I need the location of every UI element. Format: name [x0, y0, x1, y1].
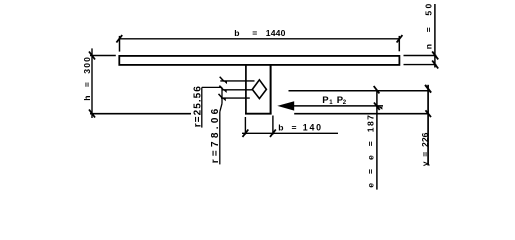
svg-text:h = 300: h = 300 — [82, 56, 92, 101]
svg-text:b: b — [278, 122, 283, 132]
svg-text:r=78.06: r=78.06 — [210, 105, 221, 163]
svg-text:n = 50: n = 50 — [424, 1, 434, 49]
svg-text:e = e = 187: e = e = 187 — [365, 114, 375, 188]
svg-text:1440: 1440 — [266, 28, 286, 38]
svg-text:=: = — [252, 28, 257, 38]
svg-text:b: b — [234, 28, 239, 38]
svg-text:2: 2 — [343, 100, 347, 106]
svg-text:r=25.56: r=25.56 — [193, 85, 204, 127]
svg-text:140: 140 — [303, 122, 323, 132]
svg-text:1: 1 — [329, 100, 333, 106]
svg-text:=: = — [292, 122, 297, 132]
svg-text:y = 226: y = 226 — [420, 132, 430, 166]
